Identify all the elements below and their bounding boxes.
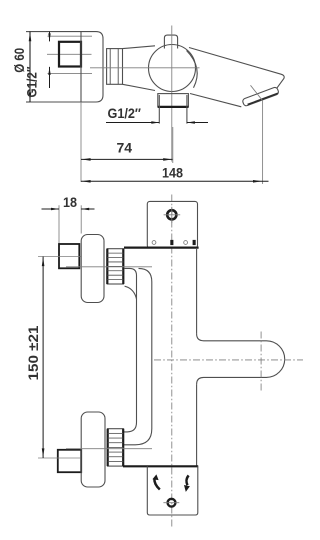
collar thick bottom edge: [158, 106, 189, 108]
wall face line / 74-148 datum: [80, 32, 82, 102]
bottom escutcheon: [81, 412, 105, 487]
bottom knurled nut: [108, 429, 124, 466]
aerator bottom edge accent: [248, 93, 278, 104]
spout capsule (plan): [197, 334, 285, 385]
bottom nut axis line: [38, 457, 81, 459]
body right edge upper: [196, 249, 198, 334]
top union nut: [59, 244, 79, 268]
horizontal centerline through body: [90, 67, 200, 69]
top inlet centerline: [66, 266, 152, 268]
top nut axis line: [38, 256, 81, 258]
inlet centerline: [47, 53, 92, 55]
dim G1/2 outlet leader/underline: [106, 122, 159, 124]
top knurled nut: [107, 249, 123, 284]
control box: [147, 466, 198, 515]
svg-text:150 ±21: 150 ±21: [25, 325, 41, 380]
spout top line: [189, 48, 284, 89]
knob on top: [164, 35, 177, 48]
svg-text:18: 18: [63, 194, 77, 210]
aerator (angled): [242, 87, 279, 107]
base thick line: [123, 465, 198, 467]
main centerline (dash-dot): [171, 195, 173, 527]
eccentric union body lines behind flange: [48, 35, 93, 37]
down-pipe right: [123, 268, 152, 444]
wall flange escutcheon (side view): [30, 32, 103, 102]
cone from nut to body cap: [123, 46, 156, 49]
svg-text:148: 148: [162, 165, 183, 181]
G1/2 thread square: [59, 42, 81, 67]
bracket screw boss ring: [167, 210, 176, 219]
capsule vertical centerline: [260, 332, 262, 391]
handle ball circle: [149, 45, 196, 92]
bottom inlet centerline: [66, 448, 152, 450]
flange bottom extension line: [26, 101, 30, 103]
svg-text:G1/2″: G1/2″: [23, 66, 39, 97]
spout tip extension line: [262, 101, 264, 185]
svg-text:74: 74: [117, 140, 133, 156]
cold arrow glyph (right): [186, 475, 188, 485]
svg-text:G1/2″: G1/2″: [108, 105, 142, 121]
dim 148: [81, 180, 269, 182]
top arm lower edge & down-pipe left: [123, 268, 137, 432]
body right edge lower: [196, 384, 198, 466]
dim 18: [42, 208, 60, 210]
hot arrow glyph (left): [154, 479, 159, 490]
dim 18 extension lines: [58, 205, 60, 243]
diverter knob circle: [168, 499, 176, 507]
dim 74: [81, 158, 173, 160]
spout underside line: [190, 94, 241, 107]
dim 150±21: [42, 257, 44, 459]
bottom union nut: [58, 450, 81, 472]
vertical centerline through body: [171, 26, 173, 162]
dim G1/2 vertical (thread): [49, 32, 51, 42]
aerator cross tick: [251, 85, 263, 100]
top arm thick top edge / bracket base: [124, 247, 199, 249]
capsule horizontal centerline: [154, 359, 303, 361]
top escutcheon: [81, 235, 104, 303]
outlet pipe: [158, 95, 160, 124]
flange top extension line: [26, 31, 30, 33]
body cap dome arc: [187, 51, 198, 88]
shower outlet collar: [158, 94, 189, 107]
bracket screws: [152, 241, 156, 245]
wall bracket plate: [147, 201, 197, 248]
dim Ø60 line: [29, 32, 31, 102]
connection nut (side): [107, 49, 123, 85]
knurl corner transition curve: [125, 286, 137, 299]
